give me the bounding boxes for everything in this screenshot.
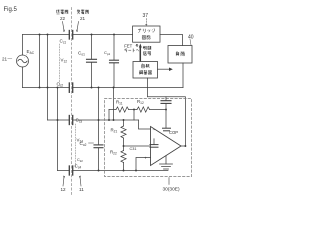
junction node (123.5,170.5) <box>123 170 125 172</box>
ac source V1 <box>17 55 29 67</box>
label leader 30 <box>168 178 170 185</box>
label 送電側 <box>56 10 59 14</box>
label leader 40 <box>190 39 191 45</box>
wire mid rail <box>23 87 70 89</box>
thick FET gate shaft <box>140 47 142 62</box>
capacitor C2 column <box>98 88 100 145</box>
capacitor C1 column <box>91 35 93 59</box>
junction node (98.5,170.5) <box>98 170 100 172</box>
label 受電側 <box>77 10 80 14</box>
svg-text:—: — <box>8 56 13 61</box>
leader C2 <box>89 142 94 144</box>
load box <box>168 46 192 64</box>
arrowhead 22 <box>63 29 65 32</box>
junction node (109,120) <box>108 119 110 121</box>
svg-text:−: − <box>153 128 156 133</box>
resistor R12 <box>137 107 150 112</box>
junction node (39.5,87.5) <box>39 87 41 89</box>
wire plus input from rail <box>136 158 151 171</box>
wire source bottom <box>22 67 24 88</box>
wire top rail <box>23 34 70 36</box>
svg-text:C31: C31 <box>130 147 137 151</box>
svg-text:30(30E): 30(30E) <box>163 187 180 193</box>
wire controller feedback vertical <box>147 78 149 97</box>
arrowhead FET gate <box>139 44 142 48</box>
junction node (185.4,146) <box>184 145 186 147</box>
wire minus path <box>139 120 151 129</box>
junction node (57.5,120) <box>57 119 59 121</box>
svg-text:12: 12 <box>61 187 67 192</box>
wire bridge to load <box>160 35 183 46</box>
label leader 37 dashed <box>145 19 147 25</box>
junction node (57.5,87.5) <box>57 87 59 89</box>
junction node (123.5,120) <box>123 119 125 121</box>
label 信号 <box>143 52 147 56</box>
svg-text:+: + <box>144 155 147 160</box>
wire rail3 <box>48 119 70 121</box>
capacitor Cp at comparator <box>165 110 167 128</box>
bridge box text <box>138 29 141 33</box>
divider resistor R21 <box>123 120 125 126</box>
junction node (47.5,87.5) <box>47 87 49 89</box>
capacitor at plus input <box>150 144 158 146</box>
arrowhead controller out <box>169 68 173 72</box>
wire controller output arrow right <box>158 68 170 70</box>
wire vertical x57 <box>57 88 59 171</box>
junction node (166,109.5) <box>165 109 167 111</box>
capacitor Cf in feedback <box>165 97 167 100</box>
wire vertical x47 <box>47 35 49 121</box>
arrowhead 11 <box>79 176 81 179</box>
svg-text:37: 37 <box>143 13 149 19</box>
comparator dashed box 30 <box>105 99 192 177</box>
junction node (113.5,87.5) <box>113 87 115 89</box>
label 制御 <box>143 46 146 50</box>
arrow 11 <box>80 177 81 186</box>
wire mid tap <box>133 110 135 121</box>
junction node (47.5,34.5) <box>47 34 49 36</box>
wire feedback horizontal <box>148 97 186 146</box>
coupling capacitor Cc4 <box>69 166 72 175</box>
coupling capacitor Cc1 <box>69 31 72 40</box>
junction node (113.5,120) <box>113 119 115 121</box>
wire bottom rail <box>58 170 70 172</box>
dotted V2 measure <box>75 124 77 168</box>
svg-text:40: 40 <box>188 35 194 41</box>
label ゲートへ <box>125 48 128 52</box>
divider resistor R22 <box>121 151 126 163</box>
junction node (134,109.5) <box>133 109 135 111</box>
arrowhead 37 <box>145 24 147 26</box>
controller box text <box>142 64 145 68</box>
wire fb top inside <box>109 109 116 111</box>
wire plus path <box>124 145 150 147</box>
svg-text:COP: COP <box>169 130 178 135</box>
wire output <box>181 145 185 147</box>
op-amp U3 <box>151 127 182 166</box>
wire vertical x40 <box>39 35 41 88</box>
ground <box>165 156 167 164</box>
dotted E leader <box>25 54 28 58</box>
wire source top <box>22 35 24 56</box>
junction node (91.5,87.5) <box>91 87 93 89</box>
junction node (98.5,120) <box>98 119 100 121</box>
junction node (39.5,34.5) <box>39 34 41 36</box>
svg-text:11: 11 <box>79 187 84 192</box>
svg-text:21: 21 <box>80 16 86 21</box>
load box text <box>176 52 179 56</box>
junction node (114,34.5) <box>113 34 115 36</box>
svg-text:Fig.5: Fig.5 <box>4 7 18 13</box>
bridge circuit box U1 <box>133 26 160 42</box>
junction node (136,170.5) <box>135 170 137 172</box>
svg-text:22: 22 <box>60 16 66 21</box>
junction node (91.5,34.5) <box>91 34 93 36</box>
arrow 12 <box>63 177 64 186</box>
arrowhead 21 <box>76 29 78 32</box>
arrow 21 <box>77 22 79 31</box>
wire vertical x113 lower <box>113 88 115 121</box>
arrowhead 12 <box>63 176 65 179</box>
controller box U2 <box>133 62 158 79</box>
boundary dashed line between sides <box>71 8 73 197</box>
dotted V1 measure <box>59 44 61 86</box>
coupling capacitor Cc3 <box>69 116 72 125</box>
junction node (98.5,87.5) <box>98 87 100 89</box>
arrow 22 <box>63 22 65 31</box>
svg-text:FET: FET <box>124 44 132 49</box>
wire load bottom <box>182 63 184 88</box>
coupling capacitor Cc2 <box>69 83 72 92</box>
capacitor C3 column x114 <box>113 35 115 60</box>
resistor R11 <box>116 107 129 112</box>
junction node (123.5,146) <box>123 145 125 147</box>
